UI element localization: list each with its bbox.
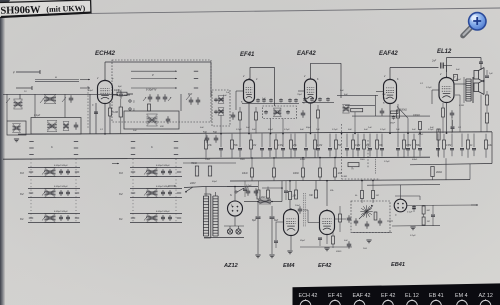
wire left switch column [30,159,32,223]
svg-text:1kΩ: 1kΩ [363,248,367,250]
wire K1 top row x130 [130,213,182,215]
tube EF42 [320,209,335,235]
svg-text:K3: K3 [20,171,24,175]
svg-text:EAF 42: EAF 42 [353,293,371,299]
legend strip background [293,283,500,305]
svg-text:1nF: 1nF [368,127,372,129]
IF T1 primary coil [218,96,224,104]
resistor 15k column x206 [205,134,213,158]
resistor osc [148,104,151,111]
dashed path vertical x341 [341,124,343,179]
zoom magnifier icon [463,13,486,36]
svg-text:5nF: 5nF [430,127,434,129]
svg-text:50kΩ: 50kΩ [412,159,418,161]
junction dot [354,133,356,135]
wire right block v [491,132,493,164]
resistor 50k column x336 [335,134,343,158]
power transformer primary [203,196,208,236]
tube ECH42 [98,79,113,104]
svg-text:0.1μF: 0.1μF [384,161,390,163]
capacitor column x452 [450,134,454,157]
wire avc h [183,162,236,164]
resistor 0.3M det [355,180,364,203]
resistor ECH42 cathode [109,108,119,116]
wire EL12 anode to OT [454,83,466,85]
bus right y163 [410,164,492,165]
resistor x258 low [257,181,260,203]
wire T3 down [354,112,356,133]
svg-text:0.1μF: 0.1μF [284,129,290,131]
tuner coil box [31,118,81,135]
switch contact dash [29,147,33,149]
legend socket EB 41 [431,299,442,305]
mains switch [184,182,205,193]
capacitor row above T2 1 [256,98,260,102]
capacitor column x438 [436,134,440,157]
junction dot [334,157,336,159]
svg-text:ECH 42: ECH 42 [299,293,318,299]
svg-text:0.1μF: 0.1μF [426,87,432,89]
capacitor EAF42b k [380,108,385,116]
svg-text:2nF: 2nF [199,127,204,129]
svg-text:F: F [13,71,15,75]
resistor det2 [372,180,379,203]
switch contact dash [131,154,135,156]
power transformer secondary [213,196,218,236]
left photo edge [0,0,5,305]
capacitor det c [378,218,383,226]
tube EAF42 first [305,78,317,104]
junction dot [372,180,374,182]
capacitor row EAF42a 1 [303,97,307,101]
wire ECH42 cathode [104,104,106,134]
svg-text:5nF: 5nF [412,129,416,131]
junction dot [419,132,421,134]
wire T3 right v [375,95,377,116]
wire mid v446 [445,158,447,179]
bus mid y133 [18,132,492,134]
IF T1 cap secondary [214,110,218,114]
capacitor row above T2 3 [269,98,273,102]
wire T3 out [352,115,430,117]
svg-text:6-30pF 500pF: 6-30pF 500pF [54,165,68,167]
IF T2 cap right [286,110,290,114]
gang dashes right [194,71,198,88]
capacitor column x370 [368,134,372,157]
wire EB41 top [400,196,402,199]
bus supply y180 [230,180,470,181]
junction dot [407,132,409,134]
wire K3 bottom row x28 [28,176,80,178]
wire EL12 anode top [447,58,482,78]
coil in tuner box A [47,121,57,132]
svg-text:220V: 220V [189,182,196,185]
filter choke [244,196,282,204]
wire v x96 [95,103,97,134]
coil K1 x28 [45,214,56,223]
capacitor EF42 grid [295,205,302,214]
capacitor column x283 [281,134,285,157]
svg-text:5M: 5M [427,210,430,212]
arrow band a [80,79,90,80]
switch contact dash [131,141,135,143]
capacitor row EAF42a 3 [318,97,322,101]
capacitor speaker [485,70,493,77]
antenna coil box [7,121,26,135]
resistor 1M column x251 [250,134,257,158]
coil K3 x28 [45,168,56,177]
wire left switch column2 [75,159,77,223]
main tuner bus [3,93,118,95]
resistor 0.5M column x404 [403,134,412,158]
antenna trimmer [6,98,10,103]
capacitor column x221 [219,134,223,158]
resistor 0.2M column x353 [352,134,361,158]
wire K2 bottom row x28 [28,197,80,199]
legend socket ECH 42 [300,299,311,305]
dashed path vertical x368 [367,140,369,168]
svg-text:5nF: 5nF [300,129,304,131]
switch contact K3 right [75,171,79,173]
resistor right edge b [485,113,488,132]
svg-text:K3: K3 [119,171,123,175]
svg-text:8μF: 8μF [274,219,279,222]
wire mains to transformer [205,186,258,188]
wire EAF42b cathode [389,104,391,134]
svg-text:EAF42: EAF42 [297,51,316,57]
wire v x110b [109,116,111,134]
wire transformer bottom [204,237,244,239]
capacitor K1 a [59,215,63,221]
svg-text:EF41: EF41 [240,52,255,58]
pot arrow [359,205,373,219]
resistor 10k column x486 [485,134,493,158]
resistor 1k row [319,157,322,180]
capacitor K1 b [66,215,70,221]
capacitor K1 a [161,215,165,221]
capacitor K1 b [168,215,172,221]
switch contact dash [174,141,178,143]
antenna coil [14,99,23,109]
wire tuner v2 [64,94,66,118]
resistor x296 low [295,181,298,199]
resistor 100k v [413,115,422,132]
pilot lamp 1 [227,229,232,234]
capacitor column x330 [328,134,332,157]
wire EL12 screen [455,95,460,132]
wire T3 top [337,94,378,96]
resistor 10k row [242,158,254,182]
transformer core [204,194,211,238]
coil in tuner box B [63,122,69,131]
svg-text:3nF: 3nF [344,240,348,242]
svg-text:v: v [152,73,154,77]
svg-text:0.3M: 0.3M [342,176,347,178]
svg-text:K2: K2 [20,192,24,196]
wire right switch column [132,159,134,223]
trimmer K3 x130 [144,171,147,175]
switch contact dash [74,141,78,143]
svg-text:300Ω: 300Ω [336,251,342,253]
svg-text:ECH42: ECH42 [95,50,116,57]
resistor EAF42b k [397,104,400,133]
series resistor in bus [117,90,127,96]
capacitor row above T2 4 [279,98,283,102]
svg-text:1kΩ: 1kΩ [338,173,342,175]
capacitor tuner [69,95,74,103]
junction dot [341,133,343,135]
switch contact K1 right [75,217,79,219]
ground filter b [269,255,274,258]
speaker 2 [474,80,484,95]
capacitor column x474 [472,134,476,157]
wire K1 bottom row x130 [130,222,182,224]
coil in osc box [147,114,158,126]
svg-text:0.1μF: 0.1μF [34,114,41,117]
capacitor K2 a [161,190,165,196]
junction dot [257,201,259,203]
wire EF42 grid [303,210,320,223]
svg-text:40kΩ: 40kΩ [436,171,442,174]
resistor EL12 grid [454,69,461,81]
resistor below EF41 a [239,107,242,134]
wire EM4 top [289,200,291,210]
detector dashed box [351,201,390,233]
ground EB41 [410,227,415,230]
capacitor column x318 [316,134,320,157]
svg-text:EF 42: EF 42 [381,293,395,299]
capacitor column x262 [260,134,264,158]
svg-text:0.5M: 0.5M [406,145,411,147]
dashed gang link [87,86,89,128]
svg-text:0.1μF: 0.1μF [410,235,416,237]
tuning gang dashed box [112,60,211,122]
capacitor K3 a [161,169,165,175]
svg-text:1M: 1M [427,221,430,223]
wire gang right v [180,94,182,111]
wire EAF42 anode top [311,63,342,98]
svg-text:70kΩ: 70kΩ [191,162,197,165]
capacitor column x408 [406,134,410,157]
junction dot [248,133,250,135]
capacitor column x270 [268,134,272,158]
junction dot [302,157,304,159]
wire K1 bottom row x28 [28,222,80,224]
IF transformer T2 dashed box [263,106,297,119]
svg-text:1M: 1M [253,145,256,147]
dashed path horizontal [342,178,381,180]
junction dot [326,180,328,182]
capacitor column x347 [345,134,349,157]
resistor det [374,212,377,220]
wire K2 bottom row x130 [130,197,182,199]
svg-text:S: S [133,100,135,104]
trimmer right gang [186,95,190,100]
wire T2 bottom a [270,119,272,134]
wire K2 top row x130 [130,188,182,190]
resistor 30k column x377 [376,134,384,158]
gang arrow line 3 [131,87,177,88]
resistor EF42 cathode [332,232,335,248]
svg-text:5nF: 5nF [223,95,227,97]
tube EL12 [439,76,454,103]
svg-text:8pF: 8pF [118,86,122,88]
capacitor K2 a [59,190,63,196]
switch contact K1 right [177,217,181,219]
capacitor EL12 cathode [450,110,455,133]
svg-text:5nF: 5nF [364,129,368,131]
capacitor right of ECH42 [113,91,131,99]
junction dot [104,133,106,135]
capacitor column x295 [293,134,297,157]
resistor 1k column x468 [467,134,474,158]
svg-text:EM4: EM4 [283,263,295,269]
svg-text:EB41: EB41 [391,262,405,268]
capacitor column x358 [356,134,360,157]
speaker 1 [474,68,484,83]
wire EF41 g1 [236,91,244,110]
svg-text:(mit UKW): (mit UKW) [46,4,85,14]
switch contact S2 [129,108,135,112]
wire v x110 [109,103,111,108]
switch contact dash [174,147,178,149]
antenna input line [13,70,40,75]
capacitor EAF42b blob [389,115,396,124]
IF T1 cap primary [214,98,218,102]
capacitor column x420 [418,134,422,157]
capacitor column x462 [460,134,464,157]
wire EL12 cathode [446,103,448,134]
svg-text:AZ 12: AZ 12 [479,293,493,299]
coil K3 x130 [147,168,158,177]
ground det [366,240,371,243]
switch contact K3 left [131,171,135,173]
svg-text:5nF: 5nF [203,132,208,134]
svg-text:K1: K1 [20,217,24,221]
svg-text:6-30pF 500pF: 6-30pF 500pF [54,186,68,188]
ground filter a [255,255,260,258]
wire EF42 cathode btm [326,235,328,245]
resistor EL12 cathode [442,103,445,133]
resistor 5k row [273,157,276,181]
capacitor column x398 [396,134,400,157]
junction dot [289,180,291,182]
svg-text:50pF: 50pF [88,90,94,92]
resistor EM4 left [267,187,270,202]
wire K1 top row x28 [28,213,80,215]
coil in antenna box [13,124,21,133]
junction dot [361,180,363,182]
svg-text:6-30pF 500pF: 6-30pF 500pF [54,211,68,213]
junction dot [270,133,272,135]
tuner trimmer 1 [40,98,44,103]
switch contact dash [74,147,78,149]
ground antenna [14,139,19,142]
wire right v2 [469,164,471,180]
junction dot [446,132,448,134]
svg-text:5nF: 5nF [344,94,348,96]
resistor 50k column x414 [413,134,421,158]
svg-text:0.2M: 0.2M [355,145,360,147]
svg-text:8pF: 8pF [188,93,193,96]
resistor T3 horizontal [351,108,363,111]
cap cluster right gang [189,97,201,105]
wire K2 top row x28 [28,188,80,190]
svg-text:EL 12: EL 12 [405,293,419,299]
output transformer [464,77,473,103]
junction dot [319,157,321,159]
junction dot [271,201,273,203]
wire EAF42b anode top [390,68,439,80]
wire lamps [224,216,244,229]
svg-text:6-30pF 500pF: 6-30pF 500pF [156,211,170,213]
switch contact dash [29,154,33,156]
svg-text:K2: K2 [119,192,123,196]
wire B+ up [262,188,282,202]
wire row EAF42a [302,102,334,104]
capacitor row above T2 2 [262,98,266,102]
junction dot [281,187,283,189]
resistor below EF41 b [255,107,258,134]
legend socket EL 12 [407,299,418,305]
wire T2 bottom b [282,119,284,134]
bus after resistor [127,93,133,95]
svg-text:15kΩ: 15kΩ [205,159,211,161]
capacitor EF42 out [335,215,352,223]
resistor 70k vertical [191,162,199,176]
svg-text:1MΩ: 1MΩ [360,159,365,161]
resistor EB41 load [422,205,430,225]
switch contact K3 left [29,171,33,173]
arrow band b [80,87,90,88]
capacitor row EAF42a 4 [326,97,330,101]
wire AZ12 anode [227,187,244,202]
svg-text:0.1μF: 0.1μF [407,212,413,214]
svg-text:EL12: EL12 [437,49,452,55]
resistor 0.1M column x315 [314,134,323,158]
svg-text:2nF: 2nF [251,129,256,131]
junction dot [389,133,391,135]
svg-text:6-30pF M: 6-30pF M [146,89,156,92]
switch contact K2 right [177,192,181,194]
bus ground y158 [3,157,430,159]
tube EF41 [244,78,255,103]
arrow K3 right [112,163,119,164]
wire T3 mid [345,104,375,106]
resistor EM4 anode [288,192,296,200]
tube EM4 [284,208,299,236]
capacitor x96 [94,112,98,113]
switch contact dash [131,147,135,149]
capacitor 5nF mains b [254,188,259,196]
coil K2 x28 [45,189,56,198]
wire antenna down [6,94,8,121]
wire EM4 supply [289,181,291,192]
svg-text:0.3M: 0.3M [278,145,283,147]
svg-text:100Ω: 100Ω [293,173,299,175]
capacitor EAF42a k [301,110,306,118]
wire EAF42b slant [397,106,408,118]
capacitor K2 b [168,190,172,196]
wire T1 bottom [220,116,222,134]
wire transformer top [206,187,216,197]
svg-text:5nF: 5nF [305,98,309,100]
wire speaker down [480,95,482,132]
legend socket EF 41 [330,299,341,305]
svg-text:100kΩ: 100kΩ [413,115,420,117]
svg-text:10nF: 10nF [295,205,301,207]
coil T3 [343,105,350,114]
